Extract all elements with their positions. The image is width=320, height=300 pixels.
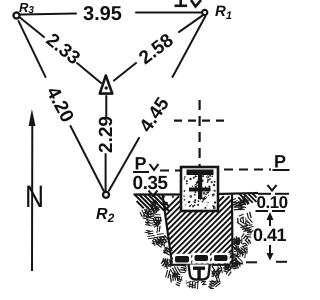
pit left wall line	[163, 195, 173, 264]
ground line right	[218, 193, 258, 194]
svg-text:0.41: 0.41	[253, 225, 287, 245]
concrete monument block	[181, 167, 218, 211]
point R2	[103, 192, 109, 198]
wire R3 to R2 (4.20)	[19, 21, 104, 191]
bottom marker cup backing	[187, 265, 212, 282]
check mark left	[150, 164, 159, 170]
svg-text:R2: R2	[96, 206, 115, 225]
block top bar	[187, 170, 214, 176]
excavation left wall rock texture	[140, 200, 178, 269]
svg-text:N: N	[25, 179, 44, 214]
bolt stem	[198, 173, 202, 199]
bottom marker cup	[189, 265, 210, 280]
svg-text:P: P	[135, 154, 147, 174]
brick markers at pit bottom	[173, 254, 191, 265]
svg-text:R1: R1	[215, 3, 232, 22]
pit backfill hatch	[164, 196, 232, 263]
bolt crossbar	[189, 188, 211, 192]
bottom marker T	[193, 267, 205, 270]
underline dashes	[256, 210, 269, 212]
wire R3 to station (2.33)	[21, 18, 102, 83]
P dashed line	[160, 170, 181, 172]
wire R1 to station (2.58)	[114, 16, 203, 81]
wire station to R2 (2.29)	[105, 96, 108, 191]
svg-text:2.29: 2.29	[96, 116, 117, 153]
down arrow	[269, 245, 271, 257]
bottom level dashes	[233, 263, 243, 265]
check above 0.10	[268, 185, 277, 191]
north arrow	[31, 123, 33, 271]
left soil wedge hatch	[135, 195, 170, 212]
wire R1 to R2 (4.45)	[109, 16, 206, 191]
wire line R3 to R1 (3.95)	[21, 13, 201, 15]
line under bricks	[169, 264, 231, 266]
station triangle symbol	[100, 76, 113, 94]
point R3	[14, 13, 20, 19]
svg-text:0.35: 0.35	[133, 173, 169, 194]
partial text at top edge (1V)	[175, 0, 202, 7]
svg-text:4.45: 4.45	[136, 94, 174, 137]
point R1	[202, 10, 207, 15]
ground line left	[134, 193, 182, 195]
excavation right wall rock texture	[231, 196, 253, 258]
up arrow	[269, 214, 271, 226]
svg-text:3.95: 3.95	[83, 3, 122, 25]
svg-text:P: P	[274, 152, 286, 172]
svg-text:R3: R3	[19, 0, 34, 16]
check mark below 0.35	[149, 191, 158, 197]
centerline horizontal dashed	[174, 119, 229, 121]
excavation bottom rock texture	[166, 253, 243, 289]
svg-text:4.20: 4.20	[42, 83, 78, 126]
right soil wedge hatch	[238, 193, 257, 205]
centerline vertical dash-dot	[199, 100, 201, 166]
svg-text:0.10: 0.10	[257, 193, 288, 212]
pit right wall line	[231, 195, 234, 264]
overline dashes	[258, 193, 271, 195]
svg-text:2.58: 2.58	[135, 30, 177, 69]
